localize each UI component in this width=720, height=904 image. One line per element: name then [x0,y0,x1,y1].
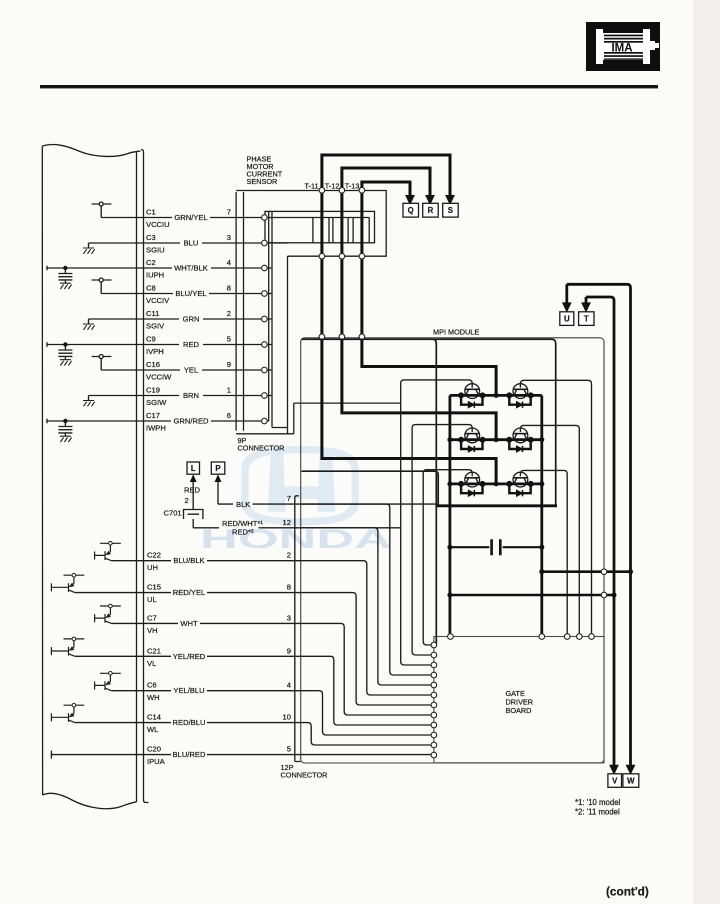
svg-text:5: 5 [227,335,231,344]
svg-text:7: 7 [227,208,231,217]
svg-text:GRN/RED: GRN/RED [173,417,209,426]
svg-text:C11: C11 [146,309,159,318]
svg-text:Q: Q [408,206,414,215]
svg-text:C15: C15 [147,583,161,592]
svg-text:BLU: BLU [184,239,199,248]
svg-text:BRN: BRN [183,391,199,400]
svg-text:L: L [191,464,196,473]
svg-text:T-11: T-11 [305,182,319,191]
svg-text:YEL/BLU: YEL/BLU [173,686,204,695]
svg-text:T-12: T-12 [325,182,340,191]
svg-text:W: W [627,777,635,786]
svg-text:HONDA: HONDA [200,524,392,554]
svg-text:BOARD: BOARD [506,706,532,715]
svg-text:(cont'd): (cont'd) [606,885,649,899]
svg-text:6: 6 [227,411,231,420]
svg-text:C9: C9 [146,335,156,344]
svg-text:RED: RED [184,486,201,495]
svg-text:VCCIV: VCCIV [146,296,170,305]
svg-text:VCCIU: VCCIU [146,220,170,229]
svg-text:C16: C16 [146,360,160,369]
svg-text:10: 10 [283,713,291,722]
svg-text:RED: RED [183,340,200,349]
svg-text:WHT: WHT [180,619,198,628]
svg-text:GRN/YEL: GRN/YEL [174,213,207,222]
svg-text:R: R [428,206,434,215]
svg-text:3: 3 [227,233,231,242]
svg-text:1: 1 [227,386,231,395]
svg-text:CONNECTOR: CONNECTOR [238,444,285,453]
svg-text:5: 5 [287,745,291,754]
svg-text:C21: C21 [147,646,161,655]
svg-text:MPI MODULE: MPI MODULE [433,327,479,336]
svg-text:SGIV: SGIV [146,322,165,331]
svg-text:IPUA: IPUA [147,757,166,766]
svg-text:V: V [612,777,618,786]
svg-text:BLK: BLK [236,500,250,509]
svg-text:C14: C14 [147,713,161,722]
svg-text:RED/YEL: RED/YEL [173,588,206,597]
svg-text:IMA: IMA [611,43,632,55]
svg-text:IUPH: IUPH [146,271,164,280]
svg-text:U: U [564,315,570,324]
svg-text:4: 4 [227,258,231,267]
svg-text:C6: C6 [147,681,157,690]
svg-text:3: 3 [287,613,291,622]
svg-text:2: 2 [287,551,291,560]
svg-text:BLU/RED: BLU/RED [173,750,206,759]
svg-text:*1: '10 model: *1: '10 model [575,798,621,807]
svg-text:C1: C1 [146,208,156,217]
svg-text:WH: WH [147,693,160,702]
svg-text:T-13: T-13 [345,182,360,191]
svg-text:2: 2 [185,496,189,505]
svg-text:BLU/YEL: BLU/YEL [175,289,206,298]
svg-text:SGIW: SGIW [146,398,167,407]
svg-text:VL: VL [147,659,156,668]
svg-text:UL: UL [147,595,157,604]
svg-text:BLU/BLK: BLU/BLK [173,556,204,565]
svg-text:12: 12 [283,518,291,527]
svg-text:WHT/BLK: WHT/BLK [174,264,208,273]
svg-text:RED/BLU: RED/BLU [173,718,206,727]
svg-text:C7: C7 [147,613,157,622]
svg-text:CONNECTOR: CONNECTOR [281,771,328,780]
svg-text:RED*²: RED*² [232,528,254,537]
svg-text:C701: C701 [164,509,182,518]
svg-text:2: 2 [227,309,231,318]
svg-text:C22: C22 [147,551,161,560]
svg-text:GRN: GRN [183,315,200,324]
svg-text:YEL: YEL [184,366,198,375]
svg-text:UH: UH [147,563,158,572]
svg-text:VH: VH [147,626,158,635]
svg-text:C3: C3 [146,233,156,242]
svg-text:9: 9 [287,646,291,655]
svg-text:7: 7 [287,494,291,503]
svg-text:IWPH: IWPH [146,424,166,433]
svg-text:T: T [584,315,589,324]
svg-text:C2: C2 [146,258,156,267]
svg-text:VCCIW: VCCIW [146,373,172,382]
svg-text:C17: C17 [146,411,160,420]
svg-text:4: 4 [287,681,291,690]
svg-text:YEL/RED: YEL/RED [173,652,206,661]
svg-text:WL: WL [147,725,158,734]
svg-text:IVPH: IVPH [146,347,164,356]
svg-text:C19: C19 [146,386,160,395]
svg-text:C8: C8 [146,284,156,293]
svg-text:8: 8 [227,284,231,293]
svg-text:S: S [448,206,453,215]
svg-text:C20: C20 [147,745,161,754]
svg-text:SGIU: SGIU [146,246,165,255]
svg-text:P: P [215,464,220,473]
svg-text:8: 8 [287,583,291,592]
svg-text:*2: '11 model: *2: '11 model [575,808,620,817]
svg-text:9: 9 [227,360,231,369]
svg-text:SENSOR: SENSOR [247,177,278,186]
